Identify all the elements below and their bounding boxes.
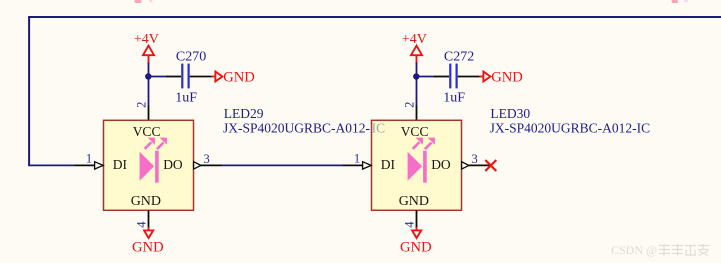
svg-text:1: 1 bbox=[86, 151, 92, 165]
pin DO (LED30) bbox=[462, 162, 491, 169]
svg-text:CSDN @: CSDN @ bbox=[611, 243, 657, 257]
svg-text:VCC: VCC bbox=[401, 124, 429, 139]
svg-text:GND: GND bbox=[491, 69, 523, 85]
svg-text:DI: DI bbox=[381, 157, 396, 172]
junction dot node +4V (LED29) bbox=[145, 73, 151, 79]
svg-text:VCC: VCC bbox=[133, 124, 161, 139]
wire DO LED29 to DI LED30 bbox=[222, 164, 343, 166]
stray pink mark top right bbox=[672, 0, 689, 3]
wire top horizontal bus bbox=[28, 16, 721, 18]
junction dot node +4V (LED30) bbox=[413, 73, 419, 79]
capacitor C270 pin 2 bbox=[190, 76, 212, 78]
pin DO (LED29) bbox=[194, 162, 223, 169]
LED symbol cathode bar (LED30) bbox=[423, 151, 427, 183]
capacitor C270 plates bbox=[182, 64, 188, 89]
pin GND (LED29) bbox=[148, 210, 150, 228]
wire +4V to VCC pin (LED30) bbox=[416, 63, 418, 106]
capacitor C272 pin 2 bbox=[458, 76, 480, 78]
capacitor C272 plates bbox=[450, 64, 456, 89]
wire horizontal into DI of LED29 bbox=[28, 164, 75, 166]
capacitor C270 pin 1 bbox=[166, 76, 181, 78]
svg-text:GND: GND bbox=[223, 69, 255, 85]
svg-text:GND: GND bbox=[131, 194, 161, 209]
svg-text:4: 4 bbox=[134, 221, 148, 228]
wire junction to C270 bbox=[148, 76, 166, 78]
LED emission arrow 1 (LED30) bbox=[413, 138, 423, 149]
power port GND symbol (C270) bbox=[212, 72, 223, 82]
pin DI (LED29) bbox=[75, 162, 104, 169]
pin VCC (LED29) bbox=[148, 105, 150, 120]
svg-text:GND: GND bbox=[132, 240, 164, 256]
pin VCC (LED30) bbox=[416, 105, 418, 120]
svg-text:LED29: LED29 bbox=[224, 106, 264, 121]
power port GND symbol (C272) bbox=[480, 72, 491, 82]
svg-text:DO: DO bbox=[431, 157, 451, 172]
LED emission arrow 1 (LED29) bbox=[145, 138, 155, 149]
svg-text:1uF: 1uF bbox=[175, 91, 197, 106]
svg-text:3: 3 bbox=[203, 152, 209, 166]
LED symbol cathode bar (LED29) bbox=[155, 151, 159, 183]
svg-text:1uF: 1uF bbox=[443, 91, 465, 106]
svg-text:GND: GND bbox=[400, 240, 432, 256]
svg-text:C272: C272 bbox=[444, 49, 474, 64]
power port GND symbol below LED29 bbox=[144, 227, 153, 238]
pin DI (LED30) bbox=[343, 162, 372, 169]
svg-text:C270: C270 bbox=[176, 49, 206, 64]
wire left vertical drop bbox=[28, 16, 30, 165]
svg-text:3: 3 bbox=[471, 152, 477, 166]
watermark CSDN bbox=[611, 243, 657, 257]
svg-text:4: 4 bbox=[402, 221, 416, 228]
wire junction to C272 bbox=[416, 76, 434, 78]
watermark CJK glyph blocks bbox=[659, 244, 709, 256]
stray pink mark top left bbox=[135, 0, 153, 3]
svg-text:1: 1 bbox=[354, 151, 360, 165]
power port +4V symbol (LED29) bbox=[143, 46, 154, 64]
svg-text:2: 2 bbox=[402, 102, 416, 108]
component body LED29 bbox=[104, 120, 194, 210]
no-connect X on DO (LED30) bbox=[485, 160, 496, 171]
svg-text:JX-SP4020UGRBC-A012-IC: JX-SP4020UGRBC-A012-IC bbox=[223, 121, 384, 136]
LED symbol triangle (LED29) bbox=[140, 152, 155, 181]
svg-text:IC: IC bbox=[372, 121, 386, 136]
component body LED30 bbox=[372, 120, 462, 210]
svg-text:DI: DI bbox=[113, 157, 128, 172]
svg-text:2: 2 bbox=[134, 102, 148, 108]
svg-text:LED30: LED30 bbox=[490, 106, 530, 121]
svg-text:+4V: +4V bbox=[134, 32, 159, 47]
LED emission arrow 2 (LED30) bbox=[425, 138, 435, 150]
LED symbol triangle (LED30) bbox=[408, 152, 423, 181]
power port GND symbol below LED30 bbox=[412, 227, 421, 238]
svg-text:DO: DO bbox=[163, 157, 183, 172]
power port +4V symbol (LED30) bbox=[411, 46, 422, 64]
svg-text:+4V: +4V bbox=[402, 32, 427, 47]
wire +4V to VCC pin (LED29) bbox=[148, 63, 150, 106]
svg-text:JX-SP4020UGRBC-A012-IC: JX-SP4020UGRBC-A012-IC bbox=[490, 121, 651, 136]
capacitor C272 pin 1 bbox=[434, 76, 449, 78]
LED emission arrow 2 (LED29) bbox=[157, 138, 167, 150]
svg-text:GND: GND bbox=[399, 194, 429, 209]
pin GND (LED30) bbox=[416, 210, 418, 228]
